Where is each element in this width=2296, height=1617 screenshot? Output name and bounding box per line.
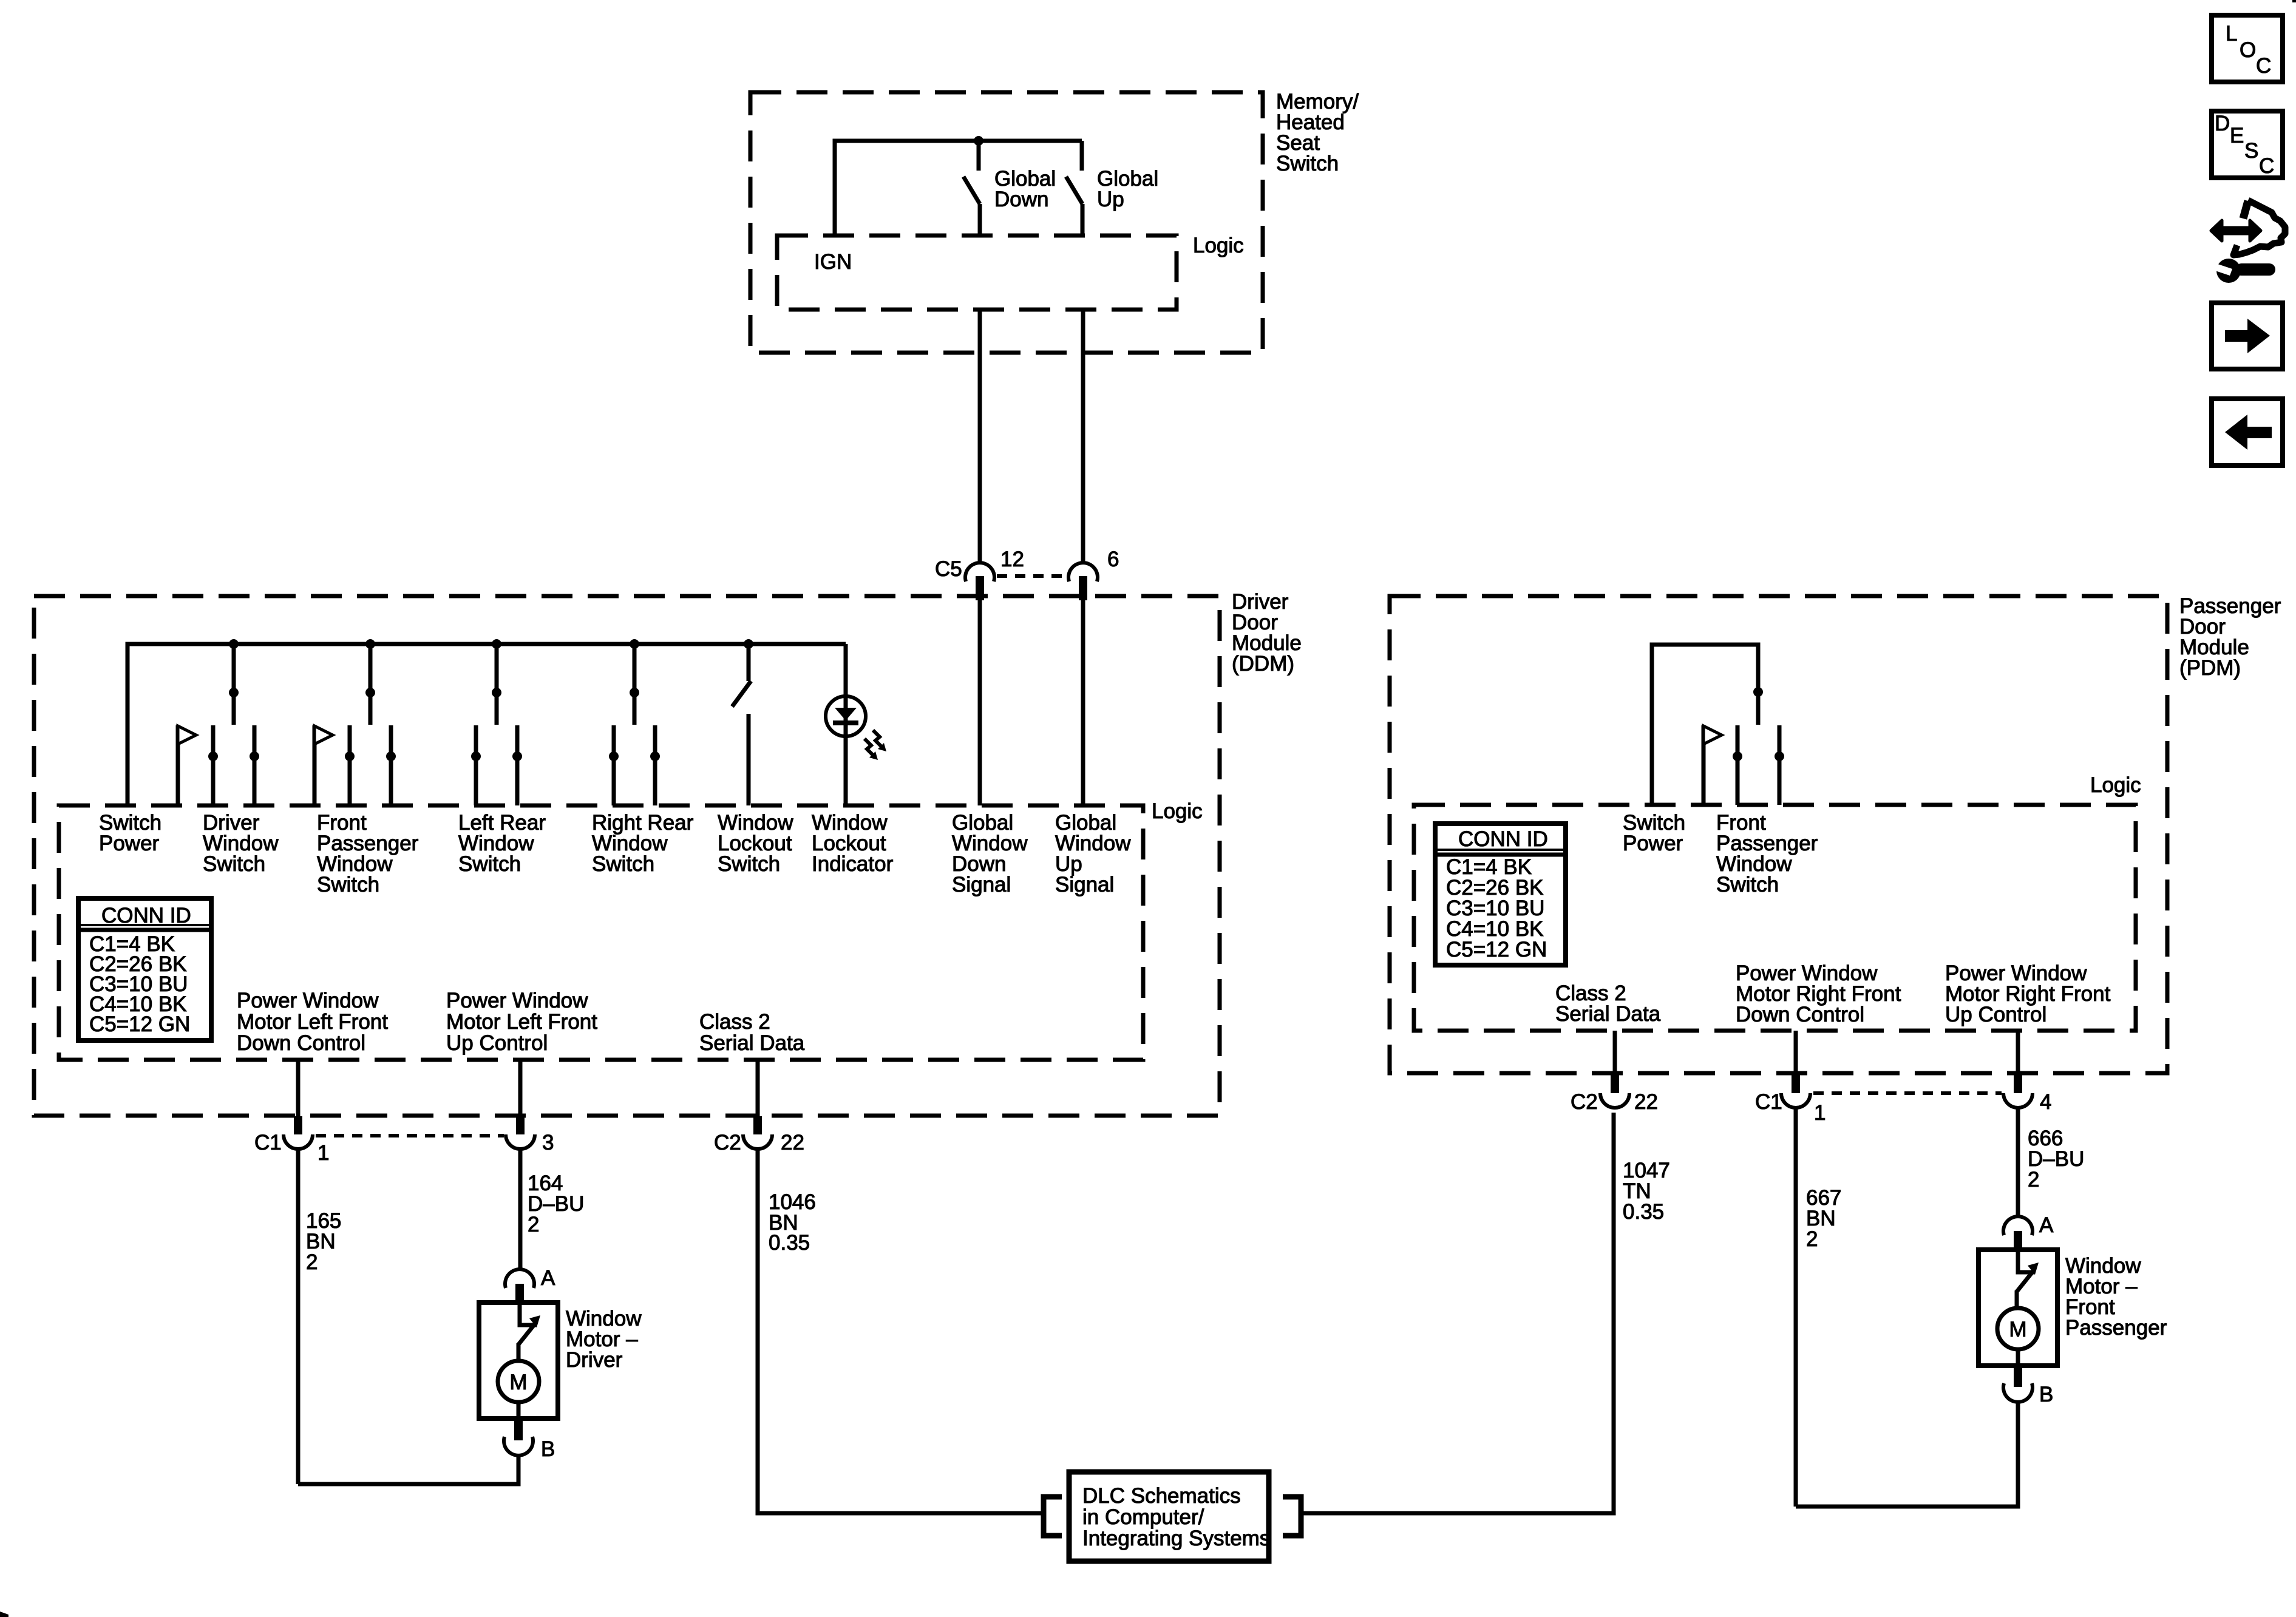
connector body dashed line C1	[316, 1134, 504, 1137]
wire class 2 serial data to C2 (DDM)	[756, 1060, 760, 1119]
label Class 2 Serial Data (DDM)	[699, 1010, 805, 1055]
switch Right Rear Window	[609, 639, 660, 805]
connector C2 pin 22 male tick (PDM)	[1611, 1074, 1619, 1093]
label pin 22 (PDM)	[1634, 1090, 1658, 1114]
label pin 4 (PDM)	[2040, 1090, 2051, 1114]
wire down control to C1	[296, 1060, 301, 1119]
connector pin 4 female socket (PDM)	[2003, 1093, 2033, 1108]
LED light rays	[864, 730, 886, 760]
svg-text:CONN ID: CONN ID	[1458, 827, 1548, 851]
svg-text:C5=12 GN: C5=12 GN	[1446, 938, 1547, 961]
svg-text:2: 2	[2028, 1168, 2039, 1192]
switch Driver Window	[178, 639, 259, 805]
svg-text:6: 6	[1107, 547, 1119, 571]
svg-text:Serial Data: Serial Data	[699, 1031, 805, 1055]
svg-text:22: 22	[1634, 1090, 1658, 1114]
svg-text:Switch: Switch	[592, 852, 654, 876]
svg-text:Switch: Switch	[458, 852, 521, 876]
label Global Down	[994, 167, 1056, 211]
junction node (PDM switch)	[1753, 687, 1763, 697]
svg-text:C: C	[2259, 154, 2274, 178]
svg-text:Down: Down	[994, 188, 1048, 211]
off-page bracket right of DLC	[1283, 1497, 1301, 1536]
svg-text:E: E	[2230, 124, 2244, 147]
label circuit 165 BN 2	[306, 1209, 341, 1274]
wire circuit 666	[2016, 1108, 2020, 1216]
wire switch power (PDM)	[1652, 645, 1758, 805]
svg-text:M: M	[509, 1371, 527, 1394]
svg-text:2: 2	[306, 1250, 318, 1274]
wire B return loop (driver)	[298, 1455, 518, 1484]
svg-text:L: L	[2226, 22, 2237, 46]
label C2 (PDM)	[1571, 1090, 1598, 1114]
wire DLC to PDM serial data	[1303, 1113, 1614, 1513]
wire global down signal into DDM	[978, 600, 982, 805]
svg-text:M: M	[2009, 1318, 2026, 1341]
svg-text:Integrating Systems: Integrating Systems	[1082, 1527, 1270, 1550]
label circuit 164 D-BU 2	[528, 1171, 584, 1236]
svg-text:Up: Up	[1097, 188, 1124, 211]
label Logic (memory seat switch)	[1193, 234, 1244, 257]
svg-text:Switch: Switch	[317, 873, 379, 897]
wire circuit 667	[1794, 1108, 1798, 1507]
module box Passenger Door Module PDM	[1390, 596, 2167, 1073]
label Power Window Motor Right Front Down Control	[1736, 961, 1901, 1026]
svg-text:Switch: Switch	[1276, 152, 1339, 175]
svg-text:A: A	[2039, 1213, 2054, 1237]
svg-text:Power: Power	[1623, 832, 1683, 855]
label C5	[935, 557, 962, 581]
svg-text:C5: C5	[935, 557, 962, 581]
connector C5 female socket	[965, 563, 994, 581]
label Window Motor - Driver	[566, 1307, 642, 1372]
svg-text:2: 2	[1806, 1227, 1818, 1251]
component box Window Motor - Front Passenger	[1978, 1250, 2057, 1366]
wire circuit 164	[518, 1148, 523, 1269]
connector B male tick (passenger motor)	[2014, 1365, 2022, 1387]
CONN ID table (DDM)	[78, 898, 211, 1040]
connector pin 6 female socket	[1068, 563, 1098, 581]
svg-text:Logic: Logic	[1152, 799, 1203, 823]
label DLC Schematics in Computer/Integrating Systems	[1082, 1484, 1270, 1550]
label Left Rear Window Switch	[458, 811, 546, 876]
connector B female socket (driver motor)	[504, 1437, 533, 1456]
icon back arrow box	[2212, 399, 2283, 466]
label Switch Power	[99, 811, 161, 855]
label pin 1 (PDM)	[1814, 1101, 1826, 1125]
label pin 22 (DDM)	[781, 1131, 804, 1154]
connector C5 pin 12 male tick	[976, 576, 984, 600]
svg-text:Motor Left Front: Motor Left Front	[446, 1010, 597, 1034]
module box Driver Door Module DDM	[34, 596, 1220, 1116]
label pin 6	[1107, 547, 1119, 571]
svg-text:Switch: Switch	[1716, 873, 1779, 897]
connector C2 pin 22 female socket (DDM)	[743, 1134, 772, 1149]
wire IGN to switch common	[835, 141, 1082, 236]
motor internal breaker switch (driver)	[518, 1303, 540, 1363]
label circuit 1046 BN 0.35	[769, 1190, 816, 1255]
label Switch Power (PDM)	[1623, 811, 1685, 855]
label Power Window Motor Left Front Up Control	[446, 989, 597, 1055]
wire up control to pin 4 (PDM)	[2016, 1031, 2020, 1076]
label Memory/Heated Seat Switch	[1276, 90, 1359, 175]
svg-text:C5=12 GN: C5=12 GN	[89, 1012, 190, 1036]
logic box (memory seat switch)	[777, 236, 1177, 310]
component box DLC Schematics	[1069, 1472, 1269, 1561]
switch Global Up blade	[1066, 177, 1082, 204]
module box Memory/Heated Seat Switch	[750, 92, 1263, 353]
label circuit 666 D-BU 2	[2028, 1127, 2084, 1192]
label Window Motor - Front Passenger	[2065, 1254, 2167, 1340]
connector C1 pin 1 male tick	[294, 1116, 302, 1134]
connector A female socket (passenger motor)	[2003, 1216, 2033, 1235]
label Front Passenger Window Switch (PDM)	[1716, 811, 1818, 897]
connector pin 3 male tick	[516, 1116, 525, 1134]
svg-text:C2: C2	[714, 1131, 741, 1154]
motor M circle (driver)	[498, 1361, 539, 1402]
svg-text:A: A	[541, 1266, 555, 1290]
component box Window Motor - Driver	[479, 1303, 558, 1419]
svg-text:IGN: IGN	[814, 250, 852, 274]
connector pin 4 male tick (PDM)	[2014, 1074, 2022, 1093]
connector A male tick (driver motor)	[515, 1284, 524, 1304]
svg-text:Driver: Driver	[566, 1348, 623, 1372]
connector C1 pin 1 male tick (PDM)	[1792, 1074, 1800, 1093]
svg-text:Passenger: Passenger	[2065, 1316, 2167, 1340]
svg-text:Switch: Switch	[718, 852, 780, 876]
switch Window Lockout	[732, 639, 753, 805]
switch Front Passenger Window	[314, 639, 396, 805]
svg-text:Up Control: Up Control	[446, 1031, 548, 1055]
label Power Window Motor Left Front Down Control	[237, 989, 388, 1055]
switch Global Down blade	[963, 177, 980, 204]
svg-text:22: 22	[781, 1131, 804, 1154]
connector body dashed line C5	[997, 574, 1066, 578]
label Logic (PDM)	[2090, 773, 2141, 797]
connector B male tick (driver motor)	[514, 1419, 523, 1440]
svg-text:1: 1	[318, 1141, 329, 1165]
wire switch power bus	[127, 644, 846, 805]
svg-text:C1: C1	[254, 1131, 282, 1154]
label Window Lockout Indicator	[812, 811, 894, 876]
label C2 (DDM)	[714, 1131, 741, 1154]
off-page bracket left of DLC	[1044, 1497, 1062, 1536]
label Class 2 Serial Data (PDM)	[1555, 981, 1661, 1026]
svg-text:Class 2: Class 2	[699, 1010, 770, 1034]
CONN ID table (PDM)	[1435, 824, 1566, 965]
label Global Window Down Signal	[952, 811, 1028, 897]
svg-text:4: 4	[2040, 1090, 2051, 1114]
svg-text:C2: C2	[1571, 1090, 1598, 1114]
wire global up signal into DDM	[1081, 600, 1085, 805]
icon diagnostic connector with arrow and wrench	[2211, 200, 2285, 283]
label IGN	[814, 250, 852, 274]
wire down control to C1 (PDM)	[1794, 1031, 1798, 1076]
svg-text:B: B	[541, 1437, 555, 1461]
label pin 12	[1000, 547, 1024, 571]
wire global up signal out of memory switch	[1081, 310, 1085, 562]
connector pin 3 female socket	[506, 1134, 535, 1149]
indicator LED Window Lockout wire	[844, 644, 848, 805]
svg-text:2: 2	[528, 1213, 539, 1236]
logic box (DDM)	[59, 805, 1143, 1060]
label Driver Window Switch	[203, 811, 279, 876]
label Right Rear Window Switch	[592, 811, 694, 876]
label C1	[254, 1131, 282, 1154]
connector B female socket (passenger motor)	[2003, 1383, 2033, 1402]
label pin A (driver motor)	[541, 1266, 555, 1290]
svg-text:Signal: Signal	[1055, 873, 1114, 897]
wire circuit 1046	[758, 1148, 1041, 1513]
svg-text:12: 12	[1000, 547, 1024, 571]
motor M circle (passenger)	[1997, 1308, 2039, 1349]
svg-text:S: S	[2244, 139, 2258, 163]
svg-text:DLC Schematics: DLC Schematics	[1082, 1484, 1241, 1508]
svg-text:1: 1	[1814, 1101, 1826, 1125]
svg-text:Down Control: Down Control	[237, 1031, 365, 1055]
svg-text:O: O	[2240, 38, 2256, 62]
wire motor to B (driver)	[517, 1402, 521, 1420]
svg-text:Down Control: Down Control	[1736, 1003, 1864, 1026]
icon DESC box	[2212, 111, 2283, 178]
wire serial data to C2 (PDM)	[1613, 1031, 1617, 1076]
icon forward arrow box	[2212, 303, 2283, 369]
wire global down lower terminal	[978, 204, 982, 236]
switch Front Passenger Window (PDM)	[1703, 725, 1784, 805]
svg-text:CONN ID: CONN ID	[101, 904, 191, 927]
connector A male tick (passenger motor)	[2014, 1231, 2022, 1252]
label Front Passenger Window Switch	[317, 811, 419, 897]
connector pin 6 male tick	[1079, 576, 1087, 600]
svg-text:Power: Power	[99, 832, 160, 855]
svg-text:C1: C1	[1755, 1090, 1782, 1114]
label Passenger Door Module (PDM)	[2179, 594, 2281, 680]
connector C1 pin 1 female socket	[284, 1134, 313, 1149]
svg-text:B: B	[2039, 1383, 2053, 1406]
svg-text:Up Control: Up Control	[1945, 1003, 2046, 1026]
label circuit 667 BN 2	[1806, 1186, 1841, 1251]
connector A female socket (driver motor)	[505, 1269, 534, 1288]
connector C2 pin 22 female socket (PDM)	[1600, 1093, 1629, 1108]
svg-text:in Computer/: in Computer/	[1082, 1505, 1204, 1529]
svg-text:Switch: Switch	[203, 852, 265, 876]
scan artifact bottom left	[0, 1612, 8, 1617]
svg-text:D: D	[2215, 112, 2230, 135]
label circuit 1047 TN 0.35	[1623, 1159, 1670, 1224]
wire up control to pin 3	[518, 1060, 523, 1119]
label Global Up	[1097, 167, 1158, 211]
connector C1 pin 1 female socket (PDM)	[1781, 1093, 1810, 1108]
svg-text:Logic: Logic	[2090, 773, 2141, 797]
wire motor to B (passenger)	[2016, 1349, 2020, 1366]
label pin A (passenger motor)	[2039, 1213, 2054, 1237]
svg-text:Power Window: Power Window	[237, 989, 379, 1012]
motor internal breaker switch (passenger)	[2017, 1250, 2039, 1310]
label pin 3	[542, 1131, 554, 1154]
svg-text:0.35: 0.35	[769, 1231, 810, 1255]
svg-text:Serial Data: Serial Data	[1555, 1002, 1661, 1026]
wire circuit 165	[296, 1148, 301, 1484]
junction node at switch common	[974, 136, 983, 146]
indicator LED Window Lockout	[826, 696, 866, 736]
label Power Window Motor Right Front Up Control	[1945, 961, 2111, 1026]
svg-text:Signal: Signal	[952, 873, 1011, 897]
connector body dashed line C1 (PDM)	[1813, 1091, 2002, 1095]
icon LOC box	[2212, 15, 2283, 82]
label Window Lockout Switch	[718, 811, 793, 876]
label pin B (driver motor)	[541, 1437, 555, 1461]
svg-text:Motor Left Front: Motor Left Front	[237, 1010, 388, 1034]
label pin 1	[318, 1141, 329, 1165]
svg-text:C: C	[2256, 54, 2271, 78]
label Global Window Up Signal	[1055, 811, 1131, 897]
connector C2 pin 22 male tick (DDM)	[753, 1116, 762, 1134]
logic box (PDM)	[1414, 805, 2136, 1031]
svg-text:Logic: Logic	[1193, 234, 1244, 257]
wire B return loop (passenger)	[1796, 1402, 2018, 1507]
label pin B (passenger motor)	[2039, 1383, 2053, 1406]
wire global down signal out of memory switch	[978, 310, 982, 562]
svg-text:3: 3	[542, 1131, 554, 1154]
svg-text:(PDM): (PDM)	[2179, 656, 2241, 680]
wire global down upper terminal	[977, 141, 981, 171]
label Driver Door Module (DDM)	[1232, 590, 1302, 676]
svg-text:(DDM): (DDM)	[1232, 652, 1294, 676]
wire global up upper terminal	[1080, 141, 1084, 171]
label Logic (DDM)	[1152, 799, 1203, 823]
switch Left Rear Window	[471, 639, 522, 805]
scan artifact top right	[2292, 0, 2296, 2]
wire global up lower terminal	[1081, 204, 1085, 236]
svg-text:Power Window: Power Window	[446, 989, 588, 1012]
label C1 (PDM)	[1755, 1090, 1782, 1114]
svg-text:0.35: 0.35	[1623, 1200, 1664, 1224]
svg-text:Indicator: Indicator	[812, 852, 894, 876]
